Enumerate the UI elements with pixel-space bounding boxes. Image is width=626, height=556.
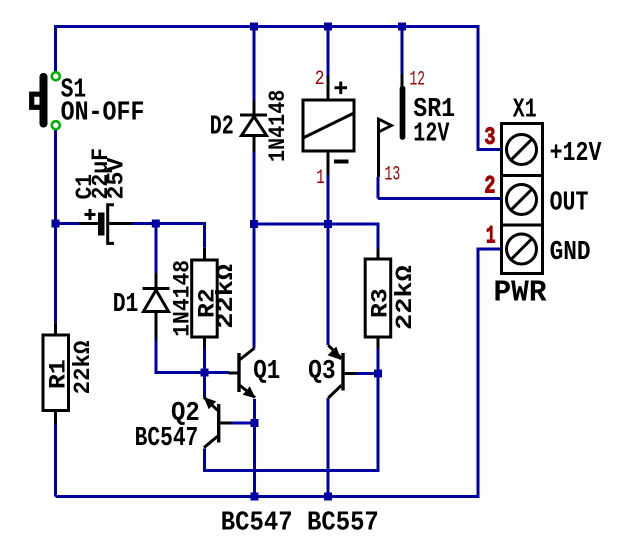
svg-text:12V: 12V [413,120,449,150]
svg-text:PWR: PWR [494,276,547,311]
svg-text:R1: R1 [46,359,73,389]
svg-text:+12V: +12V [550,139,602,169]
svg-text:2: 2 [315,68,325,91]
svg-text:1: 1 [316,167,324,190]
svg-text:3: 3 [484,123,495,152]
svg-text:1N4148: 1N4148 [265,90,292,162]
svg-text:2: 2 [484,172,495,201]
svg-text:12: 12 [410,69,426,92]
svg-text:1: 1 [486,222,496,251]
svg-text:R3: R3 [368,288,395,318]
svg-text:22kΩ: 22kΩ [70,341,97,395]
svg-text:Q1: Q1 [253,357,280,387]
svg-text:Q3: Q3 [308,357,336,387]
svg-text:BC547 BC557: BC547 BC557 [221,509,379,539]
svg-text:X1: X1 [513,96,537,126]
svg-text:BC547: BC547 [135,424,199,454]
svg-text:OUT: OUT [550,189,589,219]
svg-text:22kΩ: 22kΩ [213,264,240,329]
svg-text:D2: D2 [210,113,234,143]
svg-text:ON-OFF: ON-OFF [61,99,145,129]
svg-text:22kΩ: 22kΩ [392,265,419,330]
svg-text:13: 13 [385,164,401,187]
svg-text:D1: D1 [113,290,139,320]
svg-text:1N4148: 1N4148 [170,260,197,337]
svg-text:GND: GND [550,238,591,268]
svg-text:25V: 25V [103,157,130,200]
